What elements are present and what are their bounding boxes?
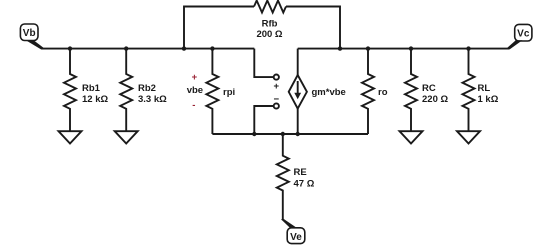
wire to minus sense terminal	[254, 106, 273, 134]
svg-text:ro: ro	[378, 87, 388, 98]
junction node on top bus at Rb2	[124, 46, 128, 50]
dependent current source gm*vbe riser bottom	[297, 109, 299, 134]
svg-text:+: +	[192, 72, 198, 83]
flag Vc wedge	[507, 40, 522, 49]
junction node on bottom bus at source	[296, 132, 300, 136]
svg-text:RC: RC	[422, 83, 436, 94]
svg-text:Rb2: Rb2	[138, 83, 156, 94]
resistor Rb1 12 kΩ	[64, 49, 76, 132]
svg-text:220 Ω: 220 Ω	[422, 94, 448, 105]
resistor RE 47 Ω	[277, 134, 289, 220]
svg-text:-: -	[192, 100, 195, 111]
wire Rfb right riser	[286, 7, 340, 49]
junction node on top bus at RC	[409, 46, 413, 50]
ground below RC	[400, 131, 423, 143]
svg-text:Ve: Ve	[290, 232, 302, 243]
wire top bus right (source riser to Vc)	[298, 48, 509, 50]
svg-text:Vc: Vc	[517, 28, 530, 39]
svg-text:3.3 kΩ: 3.3 kΩ	[138, 94, 167, 105]
svg-text:1 kΩ: 1 kΩ	[478, 94, 499, 105]
svg-text:47 Ω: 47 Ω	[294, 178, 315, 189]
wire to plus sense terminal	[254, 49, 273, 78]
svg-text:Rfb: Rfb	[262, 19, 278, 30]
resistor RL 1 kΩ	[463, 49, 475, 132]
wire Rfb left riser	[184, 7, 254, 49]
resistor Rfb 200 Ω (horizontal)	[254, 1, 286, 13]
resistor rpi	[206, 49, 218, 134]
ground below Rb1	[59, 131, 82, 143]
junction node on top bus at Rb1	[68, 46, 72, 50]
svg-text:vbe: vbe	[187, 85, 203, 96]
svg-text:−: −	[274, 94, 280, 105]
terminal circle plus	[274, 75, 279, 80]
ground below Rb2	[115, 131, 138, 143]
flag Ve box	[287, 228, 305, 244]
wire bottom bus	[212, 133, 368, 135]
resistor ro	[362, 49, 374, 134]
svg-text:12 kΩ: 12 kΩ	[82, 94, 108, 105]
svg-text:+: +	[274, 81, 280, 92]
junction node on top bus at Rfb right riser	[338, 46, 342, 50]
svg-text:Vb: Vb	[23, 28, 36, 39]
svg-text:Rb1: Rb1	[82, 83, 101, 94]
wire top bus left (Vb to port corner)	[41, 48, 254, 50]
flag Ve wedge	[281, 219, 297, 228]
junction node on top bus at Rfb left riser	[182, 46, 186, 50]
terminal circle minus	[274, 103, 279, 108]
junction node on top bus at rpi	[210, 46, 214, 50]
junction node on bottom bus at RE	[281, 132, 285, 136]
flag Vb wedge	[26, 40, 44, 49]
junction node on top bus at ro	[366, 46, 370, 50]
svg-text:gm*vbe: gm*vbe	[312, 87, 346, 98]
dependent current source gm*vbe diamond	[289, 75, 307, 109]
junction node on top bus at RL	[466, 46, 470, 50]
flag Vc box	[515, 24, 532, 41]
flag Vb box	[20, 24, 38, 41]
junction node on bottom bus at sense terminal riser	[252, 132, 256, 136]
svg-text:RL: RL	[478, 83, 491, 94]
ground below RL	[457, 131, 480, 143]
svg-text:rpi: rpi	[223, 87, 235, 98]
resistor RC 220 Ω	[405, 49, 417, 132]
svg-text:RE: RE	[294, 167, 307, 178]
dependent current source arrow	[294, 81, 301, 99]
resistor Rb2 3.3 kΩ	[120, 49, 132, 132]
svg-text:200 Ω: 200 Ω	[256, 29, 282, 40]
dependent current source gm*vbe riser top	[297, 49, 299, 75]
